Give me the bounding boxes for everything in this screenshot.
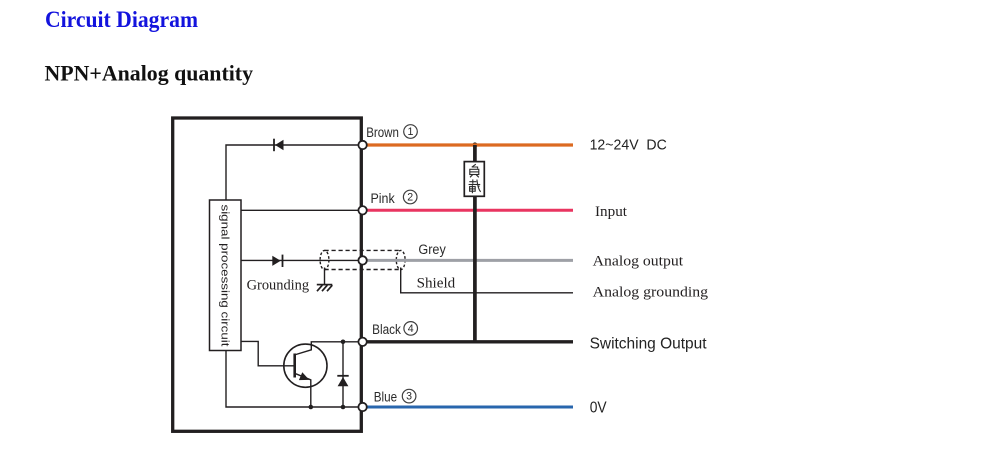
svg-text:Blue: Blue bbox=[374, 390, 397, 405]
svg-text:Circuit Diagram: Circuit Diagram bbox=[45, 7, 198, 32]
svg-text:Pink: Pink bbox=[371, 191, 395, 206]
svg-text:signal processing circuit: signal processing circuit bbox=[219, 205, 231, 347]
svg-text:Brown: Brown bbox=[366, 125, 399, 140]
svg-text:3: 3 bbox=[406, 391, 412, 403]
svg-text:Shield: Shield bbox=[417, 276, 456, 292]
svg-text:Grey: Grey bbox=[418, 242, 446, 257]
svg-text:0V: 0V bbox=[590, 400, 607, 417]
svg-text:1: 1 bbox=[408, 126, 414, 138]
svg-text:4: 4 bbox=[408, 323, 414, 335]
svg-text:12~24V DC: 12~24V DC bbox=[590, 137, 667, 154]
svg-text:Analog output: Analog output bbox=[593, 254, 684, 270]
svg-text:Analog grounding: Analog grounding bbox=[593, 285, 709, 301]
svg-text:Input: Input bbox=[595, 204, 628, 220]
svg-text:2: 2 bbox=[407, 192, 413, 204]
svg-text:Switching Output: Switching Output bbox=[590, 336, 708, 353]
svg-text:Grounding: Grounding bbox=[247, 278, 310, 294]
svg-text:NPN+Analog quantity: NPN+Analog quantity bbox=[45, 60, 254, 85]
svg-text:Black: Black bbox=[372, 322, 401, 337]
